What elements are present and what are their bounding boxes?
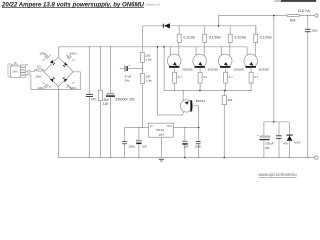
resistor R7 0,1/10w xyxy=(177,26,195,56)
svg-text:1W: 1W xyxy=(103,102,109,106)
svg-text:2N3055: 2N3055 xyxy=(233,68,244,72)
wire: 78L15 gnd to ground xyxy=(160,137,162,157)
wire: bridge bottom to ground rail xyxy=(57,86,59,157)
wire: primary top xyxy=(10,64,13,65)
svg-text:0,1/10w: 0,1/10w xyxy=(260,35,272,39)
resistor R5 100 1.0w xyxy=(140,74,152,128)
svg-text:F2: F2 xyxy=(37,65,41,69)
svg-text:100n: 100n xyxy=(39,51,46,55)
regulator U1 78L15 xyxy=(148,123,173,137)
svg-text:20/22 Ampere 13.8 volts powers: 20/22 Ampere 13.8 volts powersupply, by … xyxy=(1,2,145,8)
resistor R13 0,1/10w xyxy=(254,26,272,56)
svg-text:1uF: 1uF xyxy=(183,145,188,149)
bridge rectifier diamond xyxy=(44,57,73,86)
wire: 78L15 Out net xyxy=(174,127,199,129)
transformer T1 240v xyxy=(11,65,26,78)
svg-text:1uF: 1uF xyxy=(142,144,147,148)
transistor Q5 BD139 xyxy=(180,91,205,128)
diode D5 (reverse protection) xyxy=(163,23,170,28)
fuse F1 4A xyxy=(13,62,18,66)
resistor R6 2k2 (base bleed) xyxy=(222,91,232,158)
svg-text:47n: 47n xyxy=(91,98,97,102)
title text xyxy=(1,2,145,8)
resistor R9 0,1/10w xyxy=(203,26,221,56)
svg-text:20A: 20A xyxy=(290,19,297,23)
svg-text:20A: 20A xyxy=(36,75,41,79)
svg-text:2N3055: 2N3055 xyxy=(208,68,219,72)
svg-text:2k2: 2k2 xyxy=(228,98,233,102)
connector J1 xyxy=(25,71,30,74)
diode D3 (bridge bottom-left) xyxy=(50,77,55,82)
svg-text:100n: 100n xyxy=(128,144,135,148)
svg-text:(Version 4): (Version 4) xyxy=(146,2,161,6)
svg-text:+: + xyxy=(129,63,131,67)
capacitor C5 47n xyxy=(86,47,97,158)
label 13.8 +Vu xyxy=(297,9,310,13)
svg-text:4-5A: 4-5A xyxy=(294,141,300,145)
capacitor C12 100n (output) xyxy=(305,16,318,158)
svg-text:100n: 100n xyxy=(70,51,77,55)
version label xyxy=(146,2,161,6)
wire: rail feed down to R4 chain xyxy=(142,26,144,53)
transistor Q4 2N3055 xyxy=(244,47,270,72)
junction dots xyxy=(157,15,275,159)
fuse F3 20A xyxy=(287,14,300,22)
svg-text:100uF: 100uF xyxy=(265,142,274,146)
svg-text:0,1/10w: 0,1/10w xyxy=(235,35,247,39)
resistor R8 4,7 xyxy=(173,67,183,90)
terminal: +13.8V output xyxy=(315,14,318,17)
wire: secondary return xyxy=(25,75,31,90)
junction nubs xyxy=(89,15,309,158)
diode D4 (bridge bottom-right) xyxy=(62,77,67,82)
svg-text:47n: 47n xyxy=(283,141,288,145)
wire: bridge top to unregulated rail xyxy=(57,47,59,57)
svg-text:100n: 100n xyxy=(311,29,318,33)
capacitor C11 100n (BD139) xyxy=(194,128,201,158)
link text xyxy=(259,172,298,177)
wire: ground rail xyxy=(58,157,314,159)
wire: secondary to fuse F2 xyxy=(30,70,36,72)
svg-text:2N3055: 2N3055 xyxy=(182,68,193,72)
capacitor C9 1uF (In net) xyxy=(136,128,147,158)
capacitor C3 100n (bridge BL) xyxy=(38,82,51,90)
capacitor C10 1uF (BD139) xyxy=(182,128,188,158)
wire: emitter output rail xyxy=(143,26,256,34)
svg-text:+: + xyxy=(257,133,259,137)
svg-text:13.8 +Vu: 13.8 +Vu xyxy=(297,9,310,13)
svg-text:4,7: 4,7 xyxy=(203,75,208,79)
wire: D5 cathode to base rail xyxy=(163,47,165,91)
wire: output tap down xyxy=(264,16,289,122)
svg-text:1.0w: 1.0w xyxy=(145,58,152,62)
svg-text:www.qsl.net/on6mu: www.qsl.net/on6mu xyxy=(259,172,298,177)
svg-text:1.0w: 1.0w xyxy=(145,79,152,83)
capacitor C6 33000uF 25v xyxy=(106,47,135,158)
svg-text:In: In xyxy=(150,124,153,128)
svg-text:100n: 100n xyxy=(70,86,77,90)
transistor Q3 2N3055 xyxy=(218,47,244,72)
capacitor C14 47n (output) xyxy=(276,122,289,158)
ground symbol xyxy=(159,159,164,162)
wire: unreg rail to BD139 collector xyxy=(158,47,184,115)
svg-text:240v: 240v xyxy=(12,70,18,74)
resistor R3 2k2 1W xyxy=(98,47,109,158)
wire: base drive rail xyxy=(164,90,252,92)
svg-text:Out: Out xyxy=(167,124,172,128)
resistor R11 0,1/10w xyxy=(228,26,246,56)
diode D1 (bridge top-left) xyxy=(50,60,55,65)
transistor Q2 2N3055 xyxy=(193,47,219,72)
fuse F2 20A xyxy=(36,65,44,79)
diode D2 (bridge top-right) xyxy=(63,62,68,67)
zener diode D6 xyxy=(286,122,300,158)
AC input terminals xyxy=(8,64,11,77)
capacitor C8 100n (In net) xyxy=(122,128,135,158)
svg-text:4A: 4A xyxy=(14,62,17,65)
svg-text:25v: 25v xyxy=(265,146,270,150)
terminal: minus output xyxy=(309,152,318,159)
capacitor C4 100n (bridge BR) xyxy=(66,82,77,90)
svg-text:33000uF 25v: 33000uF 25v xyxy=(115,98,135,102)
capacitor C13 100uF 25v xyxy=(257,122,274,158)
capacitor C1 100n (bridge TL) xyxy=(39,51,51,60)
wire: secondary tap stub xyxy=(25,64,28,66)
resistor R12 4,7 xyxy=(224,67,234,90)
resistor R14 4,7 xyxy=(249,67,259,90)
top right dark bar artifact xyxy=(275,0,317,2)
resistor R10 4,7 xyxy=(198,67,208,90)
svg-text:100n: 100n xyxy=(194,145,201,149)
capacitor C7 47uF 24v xyxy=(120,63,143,82)
wire: AC return bottom xyxy=(31,72,80,90)
svg-text:0,1/10w: 0,1/10w xyxy=(209,35,221,39)
svg-text:4,7: 4,7 xyxy=(229,75,234,79)
svg-text:gnd: gnd xyxy=(159,133,164,137)
svg-text:0,1/10w: 0,1/10w xyxy=(184,35,196,39)
svg-text:24v: 24v xyxy=(125,78,130,82)
wire: output top rail xyxy=(219,16,315,26)
svg-text:2N3055: 2N3055 xyxy=(259,68,270,72)
transistor Q1 2N3055 xyxy=(167,47,193,72)
wire: unregulated V+ rail xyxy=(58,46,247,48)
svg-text:100n: 100n xyxy=(38,86,45,90)
svg-text:4,7: 4,7 xyxy=(178,75,183,79)
svg-text:4,7: 4,7 xyxy=(254,75,259,79)
wire: 78L15 In net xyxy=(125,127,149,129)
capacitor C2 100n (bridge TR) xyxy=(66,51,77,61)
svg-text:BD139: BD139 xyxy=(196,99,206,103)
resistor R4 100 1.0w xyxy=(140,52,152,73)
